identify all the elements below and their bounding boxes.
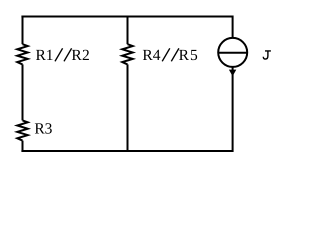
wire middle top lead bbox=[127, 16, 129, 45]
current source J circle bbox=[218, 38, 247, 67]
current source arrow head bbox=[229, 70, 236, 77]
wire left middle segment bbox=[22, 64, 24, 120]
label R4//R5 bbox=[142, 47, 198, 64]
resistor R4//R5 bbox=[122, 44, 132, 64]
wire top horizontal bbox=[21, 16, 233, 18]
svg-text:R3: R3 bbox=[34, 120, 52, 137]
svg-text:R4R5: R4R5 bbox=[142, 47, 198, 64]
current source J bar bbox=[219, 52, 247, 54]
wire left top lead bbox=[22, 16, 24, 45]
wire left bottom lead bbox=[22, 141, 24, 152]
wire middle bottom segment bbox=[127, 64, 129, 152]
wire right top lead bbox=[232, 16, 234, 39]
label J bbox=[263, 50, 271, 59]
resistor R3 bbox=[17, 120, 27, 140]
wire right bottom segment bbox=[232, 67, 234, 152]
label R1//R2 bbox=[36, 47, 90, 64]
wire bottom horizontal bbox=[21, 150, 233, 152]
resistor R1//R2 bbox=[17, 44, 27, 64]
